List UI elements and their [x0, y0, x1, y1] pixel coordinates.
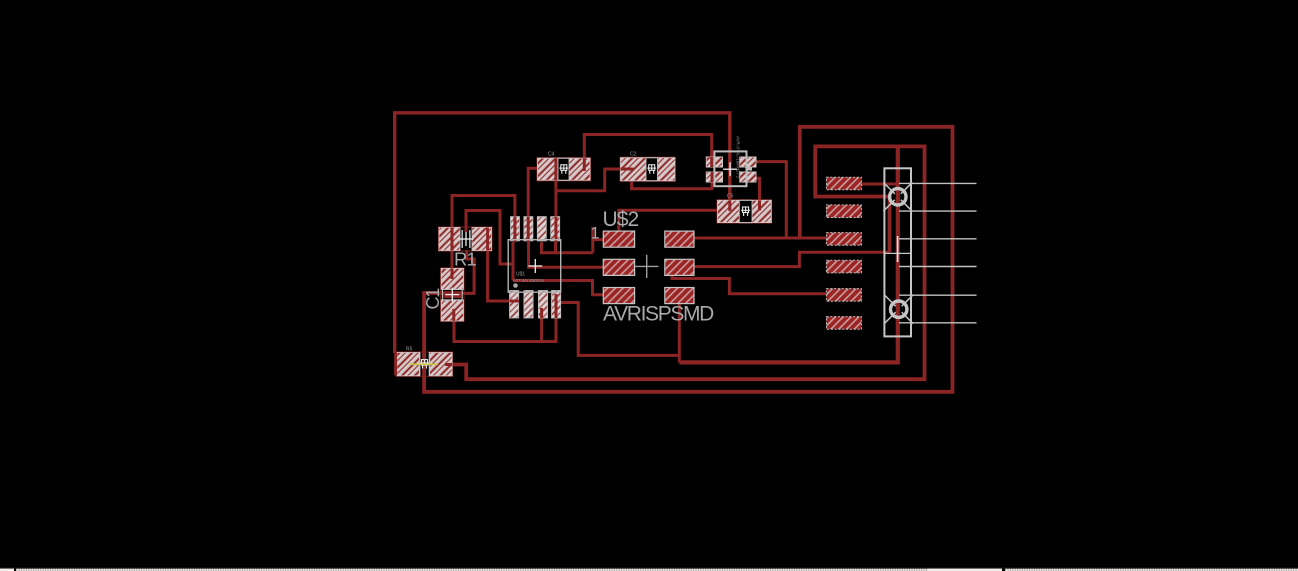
wire loop H2 outer bottom	[424, 127, 952, 392]
wire C3 left to crystal BL	[632, 181, 712, 189]
capacitor C2	[620, 152, 675, 182]
wire U$2 L1 top to C5 left	[619, 210, 718, 230]
wire IC pad1 internal vertical	[512, 242, 515, 281]
wire connector drill column + bottom run to R3c net	[679, 146, 898, 362]
wire U$2 pin R2c to connector via jog	[695, 252, 890, 266]
svg-text:C1: C1	[423, 288, 443, 310]
wire IC pad5 to bottom run	[560, 303, 679, 356]
wire loop H1 bottom-right big	[450, 146, 924, 379]
connector SMD pads	[826, 177, 861, 329]
resistor R5 (bottom-left)	[396, 347, 453, 377]
connector pin lines	[899, 183, 977, 322]
svg-text:C5: C5	[727, 194, 734, 200]
hole pad bottom	[884, 295, 913, 324]
wire IC pad2 internal to U$2 L2	[529, 242, 604, 267]
wire crystal TR down to connector row3 net	[756, 162, 787, 238]
wire C4 right to crystal TL	[584, 135, 711, 159]
svg-text:C2: C2	[630, 152, 637, 158]
wire C1 bottom to IC pad5	[454, 317, 556, 342]
crystal Q1	[706, 136, 756, 186]
airwire (ratsnest) at R5	[410, 363, 438, 365]
wire segments visible through IC pads	[510, 217, 557, 318]
wire outer-left vertical + top rail into C5	[395, 113, 730, 353]
wire connector row1 pad to hole1	[861, 183, 898, 186]
wire C4 left to C3 left	[556, 169, 621, 191]
header U$2 pads	[603, 231, 694, 304]
wire IC pad1 net to U$2 L3	[513, 281, 604, 295]
wire R1 right pad down to IC bottom pad1	[488, 250, 511, 301]
U$2 origin cross	[635, 255, 658, 278]
IC U$1 ATtiny	[508, 217, 561, 318]
wire C4 left side to IC pad2	[528, 168, 537, 216]
pin1 dot	[513, 283, 518, 288]
wire crystal BR to C5 right	[756, 178, 760, 200]
hole pad top	[883, 182, 912, 211]
svg-text:1: 1	[591, 225, 600, 243]
capacitor C5	[717, 194, 772, 224]
svg-text:ATTINY45DFN: ATTINY45DFN	[513, 278, 544, 283]
svg-text:AVR-XTAL-16MHZTS: AVR-XTAL-16MHZTS	[736, 136, 741, 178]
svg-text:U$1: U$1	[516, 272, 525, 278]
resistor R1	[439, 227, 493, 270]
wire R3c down to bottom run	[678, 303, 681, 363]
wire C4 pads vertical through	[554, 180, 557, 217]
wire IC pad3 internal to U$2 L1	[542, 227, 604, 253]
wire R2c bottom to connector row5	[672, 273, 826, 294]
connector slit	[897, 236, 899, 262]
wire U$2 pin R1c to connector row3	[695, 237, 827, 240]
wire R1 mid up over bracket into IC pad1 net	[466, 211, 513, 265]
svg-text:U$2: U$2	[603, 208, 639, 231]
body outline	[508, 240, 561, 293]
connector silk box	[884, 168, 911, 336]
wire R1 mid down through C1 mid to R5	[423, 250, 474, 293]
wire IC pad7 stub	[540, 318, 543, 342]
svg-text:R1: R1	[454, 249, 477, 270]
svg-text:R5: R5	[406, 347, 413, 353]
svg-text:C4: C4	[548, 152, 555, 158]
capacitor C4	[537, 152, 591, 181]
wire IC pad4 internal stub	[554, 242, 557, 253]
pads	[511, 217, 520, 241]
wire C1 top through R1 left to IC pad1	[452, 196, 515, 271]
svg-text:AVRISPSMD: AVRISPSMD	[603, 303, 714, 326]
capacitor C1	[423, 268, 464, 322]
